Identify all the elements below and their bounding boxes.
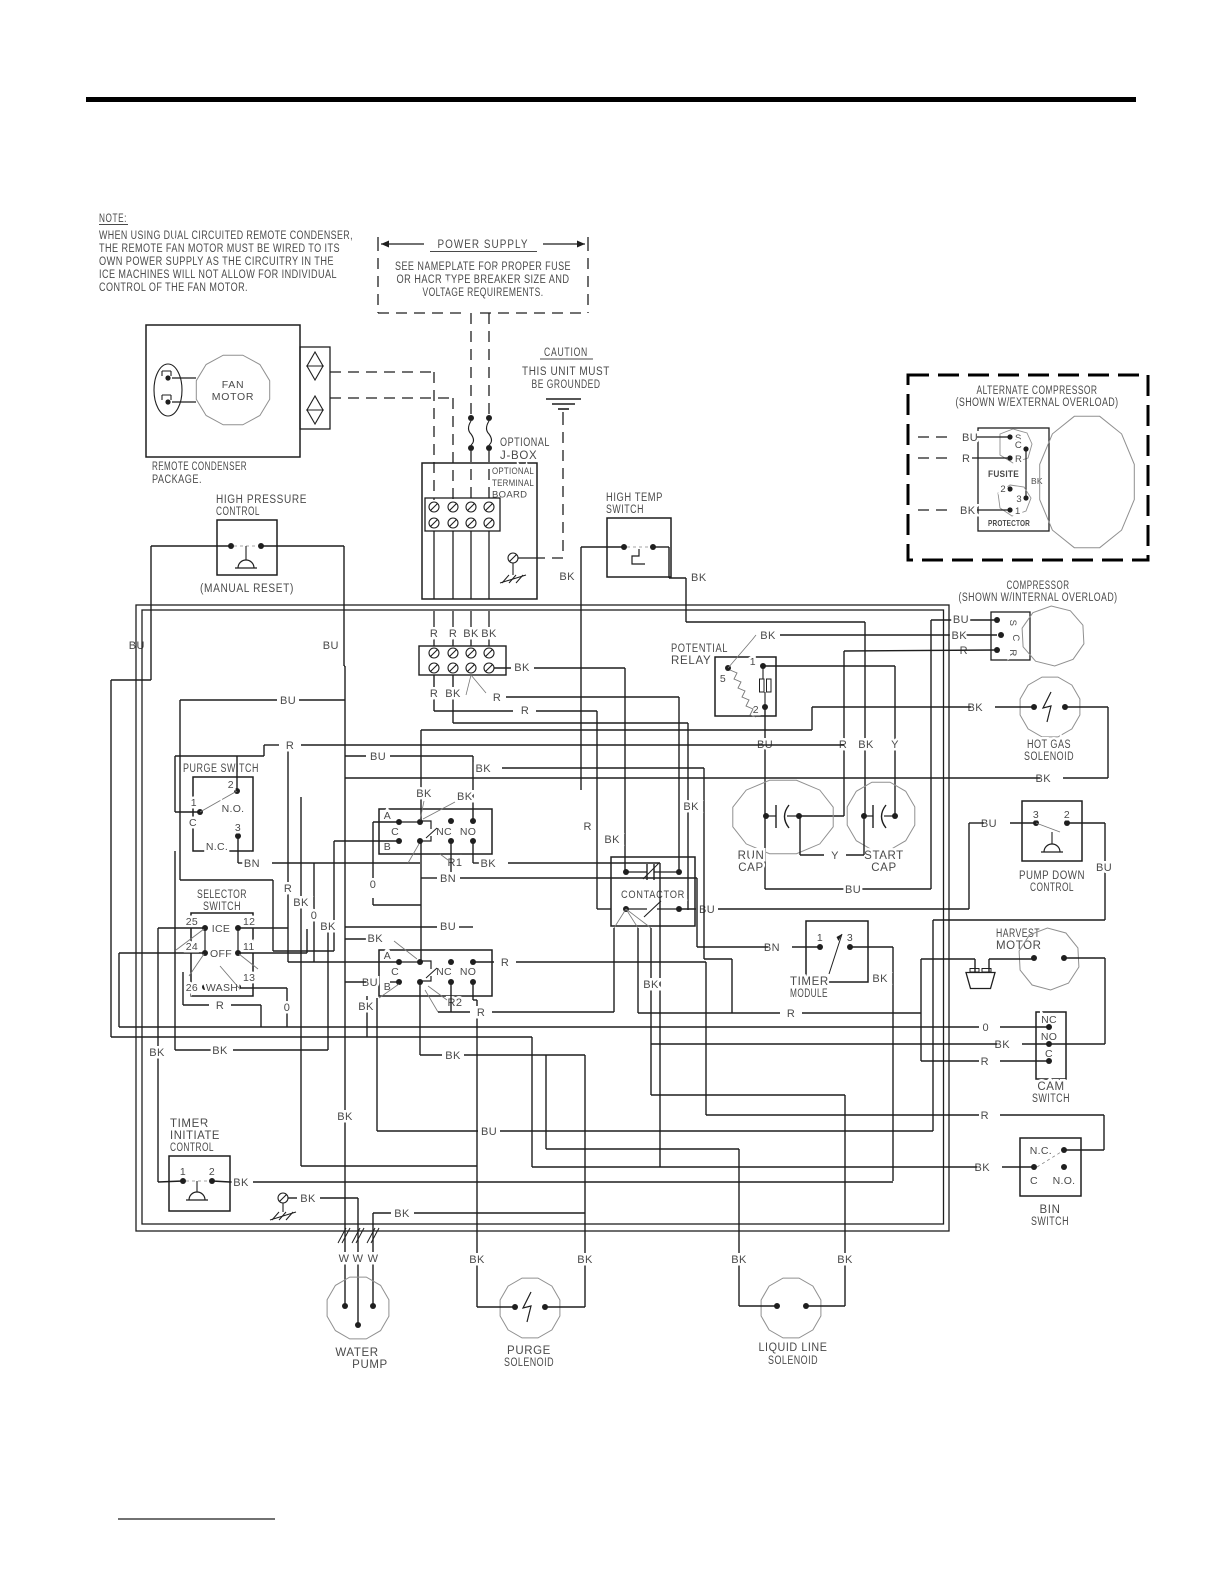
svg-text:BK: BK <box>872 973 888 985</box>
svg-text:R: R <box>477 1007 485 1019</box>
water pump <box>327 1277 389 1371</box>
svg-text:PURGE SWITCH: PURGE SWITCH <box>183 763 259 775</box>
wire - harvest motor left to plug <box>921 959 1034 1061</box>
svg-text:CONTROL: CONTROL <box>1030 882 1074 894</box>
svg-text:N.O.: N.O. <box>222 803 245 815</box>
footer line <box>118 1518 275 1520</box>
svg-text:R: R <box>521 705 529 717</box>
svg-text:SWITCH: SWITCH <box>606 504 644 516</box>
wire - R1 NO bottom BK lead <box>473 841 660 1167</box>
svg-text:BK: BK <box>1031 476 1043 486</box>
wire - R bus horizontal y745 <box>264 740 844 752</box>
wire - 0 bus vertical x314 <box>311 910 318 922</box>
node W labels <box>339 1253 379 1265</box>
svg-text:3: 3 <box>235 822 241 834</box>
wire - hot gas solenoid left BK <box>421 702 1034 822</box>
svg-text:THIS UNIT MUST: THIS UNIT MUST <box>522 366 610 378</box>
svg-text:3: 3 <box>1016 494 1022 505</box>
svg-text:START: START <box>864 850 904 862</box>
svg-text:MOTOR: MOTOR <box>212 391 254 403</box>
wire - high pressure control right BU <box>261 546 345 666</box>
svg-text:BK: BK <box>559 571 575 583</box>
relay R1 <box>379 809 492 869</box>
svg-text:R: R <box>430 688 438 700</box>
svg-text:NC: NC <box>436 966 452 978</box>
timer initiate control label <box>170 1118 220 1154</box>
wire - high pressure control left BU <box>111 546 231 1037</box>
svg-text:BK: BK <box>394 1208 410 1220</box>
wire - dashed power supply drop 2 <box>488 313 490 414</box>
svg-text:3: 3 <box>847 932 853 944</box>
wire - R2 NO bottom BK lead <box>301 982 477 1166</box>
svg-text:BK: BK <box>416 788 432 800</box>
svg-text:HIGH TEMP: HIGH TEMP <box>606 492 663 504</box>
svg-text:BU: BU <box>953 614 969 626</box>
svg-text:BU: BU <box>440 921 456 933</box>
svg-text:S: S <box>1007 620 1018 627</box>
svg-text:C: C <box>391 966 399 978</box>
wire - liquid line solenoid right BK <box>643 928 853 1306</box>
timer initiate control <box>169 1156 230 1211</box>
svg-text:NO: NO <box>460 826 476 838</box>
wire - compressor BU label <box>953 614 969 626</box>
svg-text:W: W <box>339 1253 350 1265</box>
wire - R1 A lead 0 wire to R2 armature <box>370 822 421 962</box>
svg-text:25: 25 <box>186 916 198 928</box>
svg-text:BK: BK <box>604 834 620 846</box>
svg-text:OFF: OFF <box>210 948 232 960</box>
alternate compressor dashed box <box>908 375 1148 560</box>
svg-text:R: R <box>1007 649 1018 656</box>
wire - cam switch C R wire <box>921 1056 1049 1068</box>
wire - potential relay 5 to compressor C BK <box>728 630 997 668</box>
remote condenser package box <box>146 325 300 457</box>
svg-text:R: R <box>960 645 968 657</box>
svg-text:BK: BK <box>233 1177 249 1189</box>
power supply dashed box <box>378 237 588 313</box>
wire - R1 NO top lead BU <box>345 751 473 821</box>
optional j-box switch 1 <box>468 415 474 451</box>
earth ground symbol <box>546 399 581 414</box>
svg-text:BK: BK <box>445 1050 461 1062</box>
svg-text:BK: BK <box>952 630 968 642</box>
svg-text:SWITCH: SWITCH <box>1031 1216 1069 1228</box>
svg-text:R: R <box>584 821 592 833</box>
svg-text:W: W <box>368 1253 379 1265</box>
svg-text:3: 3 <box>1033 809 1039 821</box>
wire - bin switch NC to R wire <box>706 1110 1104 1150</box>
svg-text:CONTACTOR: CONTACTOR <box>621 889 685 901</box>
liquid line solenoid <box>759 1278 828 1367</box>
svg-text:BU: BU <box>981 818 997 830</box>
wire - R bus vertical x288 <box>284 745 292 962</box>
svg-text:BK: BK <box>212 1045 228 1057</box>
wire - purge solenoid left lead BK <box>469 1166 515 1307</box>
wire - R1 C lead <box>334 841 399 951</box>
wire - terminal strip BK to contactor <box>494 662 625 872</box>
wire - timer initiate right BK lead <box>212 1177 893 1189</box>
svg-text:BE GROUNDED: BE GROUNDED <box>532 379 601 391</box>
wire - pump down BU right <box>933 823 1112 1131</box>
svg-text:ALTERNATE COMPRESSOR: ALTERNATE COMPRESSOR <box>977 385 1098 397</box>
svg-text:ICE: ICE <box>212 923 230 935</box>
svg-text:BIN: BIN <box>1040 1204 1061 1216</box>
svg-text:WASH: WASH <box>206 982 238 994</box>
svg-text:1: 1 <box>180 1166 186 1178</box>
selector switch label <box>197 889 247 913</box>
svg-text:C: C <box>391 826 399 838</box>
svg-text:(SHOWN W/INTERNAL OVERLOAD): (SHOWN W/INTERNAL OVERLOAD) <box>959 592 1118 604</box>
compressor <box>991 606 1084 666</box>
svg-text:VOLTAGE REQUIREMENTS.: VOLTAGE REQUIREMENTS. <box>423 287 544 299</box>
wire - contactor coil leads down <box>614 909 921 1020</box>
main enclosure outer box <box>136 605 949 1231</box>
svg-text:R: R <box>501 957 509 969</box>
wire - BU bus bottom <box>377 984 933 1138</box>
svg-text:BK: BK <box>300 1193 316 1205</box>
svg-text:BN: BN <box>244 858 260 870</box>
svg-text:11: 11 <box>243 941 255 953</box>
svg-text:INITIATE: INITIATE <box>170 1130 220 1142</box>
caution text <box>522 347 610 391</box>
wire - R2 A lead <box>288 961 399 963</box>
optional j-box switch 2 <box>486 415 492 451</box>
svg-text:BU: BU <box>845 884 861 896</box>
wire - alt compressor BK dashed <box>918 505 1010 517</box>
svg-text:24: 24 <box>186 941 198 953</box>
wire - purge switch 2 wire <box>236 756 238 791</box>
svg-text:WATER: WATER <box>335 1347 378 1359</box>
protector terminals <box>988 484 1031 528</box>
svg-text:TERMINAL: TERMINAL <box>492 478 534 489</box>
svg-text:FAN: FAN <box>222 379 245 391</box>
potential relay <box>715 656 776 717</box>
start cap <box>847 782 915 874</box>
svg-text:BU: BU <box>699 904 715 916</box>
svg-text:C: C <box>1030 1175 1038 1187</box>
svg-text:(SHOWN W/EXTERNAL OVERLOAD): (SHOWN W/EXTERNAL OVERLOAD) <box>956 397 1119 409</box>
svg-text:2: 2 <box>209 1166 215 1178</box>
svg-text:A: A <box>384 950 391 962</box>
svg-text:W: W <box>353 1253 364 1265</box>
svg-text:2: 2 <box>1000 484 1006 495</box>
svg-text:OPTIONAL: OPTIONAL <box>500 437 550 449</box>
selector switch <box>176 913 258 996</box>
potential relay label <box>671 643 728 667</box>
wire - hot gas solenoid right BK <box>345 707 1108 785</box>
svg-text:WHEN USING DUAL CIRCUITED REMO: WHEN USING DUAL CIRCUITED REMOTE CONDENS… <box>99 230 353 242</box>
wire - purge solenoid right lead BK <box>545 1254 593 1307</box>
svg-text:5: 5 <box>720 673 726 685</box>
svg-text:BU: BU <box>362 977 378 989</box>
wire - terminal strip R leader labels <box>466 675 679 872</box>
svg-text:BK: BK <box>481 628 497 640</box>
wire - cam switch NO BK wire <box>651 1039 1049 1051</box>
wire - selector 11 wire <box>238 929 307 953</box>
terminal strip lower <box>419 646 506 675</box>
wire - potential relay 2 BU to compressor S <box>757 620 997 896</box>
alternate compressor inner box <box>978 428 1049 531</box>
svg-text:BK: BK <box>463 628 479 640</box>
svg-text:NO: NO <box>460 966 476 978</box>
svg-text:BK: BK <box>837 1254 853 1266</box>
wire - R2 NC bottom lead <box>450 982 452 1012</box>
svg-text:BU: BU <box>481 1126 497 1138</box>
svg-text:BK: BK <box>577 1254 593 1266</box>
svg-text:R1: R1 <box>447 857 462 869</box>
fan motor left connector <box>154 364 196 416</box>
svg-text:CONTROL: CONTROL <box>170 1142 214 1154</box>
wire - R2 armature BK lead down <box>420 982 585 1307</box>
svg-text:BK: BK <box>358 1001 374 1013</box>
svg-text:CAUTION: CAUTION <box>544 347 588 359</box>
wire - R1 armature BK labels <box>416 788 472 820</box>
wire - R2 R leader to y1012 <box>425 990 614 1019</box>
svg-text:13: 13 <box>243 972 255 984</box>
svg-text:R: R <box>962 453 970 465</box>
svg-text:PURGE: PURGE <box>507 1345 551 1357</box>
cam switch <box>1032 1012 1070 1105</box>
wire - cam switch NC 0 wire <box>119 953 1049 1034</box>
wire - fusite C to protector 3 BK <box>1026 449 1043 498</box>
svg-text:HOT GAS: HOT GAS <box>1027 739 1071 751</box>
svg-text:REMOTE CONDENSER: REMOTE CONDENSER <box>152 461 247 473</box>
wire - high temp switch right BK to start cap <box>653 547 874 816</box>
wire - terminal board down leads <box>434 531 489 599</box>
svg-text:R: R <box>216 1000 224 1012</box>
svg-text:BU: BU <box>323 640 339 652</box>
svg-text:2: 2 <box>228 779 234 791</box>
wire - dashed j-box to terminal strip 1 <box>470 451 472 500</box>
svg-text:BK: BK <box>975 1162 991 1174</box>
svg-text:C: C <box>1010 634 1021 641</box>
svg-text:A: A <box>384 810 391 822</box>
svg-text:N.O.: N.O. <box>1053 1175 1076 1187</box>
svg-text:ICE MACHINES WILL NOT ALLOW FO: ICE MACHINES WILL NOT ALLOW FOR INDIVIDU… <box>99 269 337 281</box>
svg-text:BK: BK <box>457 791 473 803</box>
svg-text:HIGH PRESSURE: HIGH PRESSURE <box>216 494 307 506</box>
wire - alt compressor BU dashed <box>918 432 1010 444</box>
svg-text:BK: BK <box>760 630 776 642</box>
svg-text:N.C.: N.C. <box>1030 1145 1052 1157</box>
strain relief hatch marks <box>338 1228 379 1243</box>
svg-text:TIMER: TIMER <box>170 1118 209 1130</box>
wire - BK right of contactor <box>683 768 732 1013</box>
svg-text:12: 12 <box>243 916 255 928</box>
svg-text:COMPRESSOR: COMPRESSOR <box>1007 580 1070 592</box>
main enclosure inner box <box>142 610 944 1224</box>
wire - purge switch 3 BN wire <box>238 836 420 870</box>
wire - BK bus y1213 <box>373 1208 585 1306</box>
alternate compressor label <box>956 385 1119 409</box>
optional j-box label <box>500 437 550 462</box>
svg-text:BK: BK <box>368 933 384 945</box>
remote condenser package label <box>152 461 247 486</box>
svg-text:SWITCH: SWITCH <box>1032 1093 1070 1105</box>
wire - selector 25 ICE wire BK <box>149 928 205 1182</box>
svg-text:HARVEST: HARVEST <box>996 928 1040 940</box>
wire - dashed ground wire to terminal board <box>540 414 563 558</box>
wire - pump down BU left to contactor <box>718 818 1036 909</box>
svg-text:BU: BU <box>280 695 296 707</box>
svg-text:RELAY: RELAY <box>671 655 711 667</box>
svg-text:POTENTIAL: POTENTIAL <box>671 643 728 655</box>
svg-text:PUMP: PUMP <box>352 1359 388 1371</box>
svg-text:OPTIONAL: OPTIONAL <box>492 466 534 477</box>
wire - main center vertical to water pump <box>337 666 353 1306</box>
svg-text:BK: BK <box>320 921 336 933</box>
svg-text:SELECTOR: SELECTOR <box>197 889 247 901</box>
wire - harvest motor right to cam switch NO <box>1049 958 1105 1044</box>
hot gas solenoid <box>1020 677 1080 763</box>
purge switch <box>189 777 253 853</box>
wire - BK bus vertical x327 <box>320 921 336 933</box>
svg-text:CAP: CAP <box>871 862 896 874</box>
svg-text:BK: BK <box>1036 773 1052 785</box>
wire - dashed power supply drop 1 <box>470 313 472 414</box>
wire - purge switch C wire <box>175 745 264 812</box>
high pressure control label <box>216 494 307 518</box>
svg-text:SOLENOID: SOLENOID <box>768 1355 818 1367</box>
wire - BN bus R1 armature bottom <box>408 844 697 885</box>
wire - R2 C lead BU <box>345 977 399 989</box>
wire - timer module 3 BK right <box>850 947 893 1181</box>
svg-text:BK: BK <box>149 1047 165 1059</box>
wire - BK bus vertical x301 <box>293 797 309 1166</box>
svg-text:BOARD: BOARD <box>492 490 527 501</box>
svg-text:R: R <box>493 692 501 704</box>
wire - R2 armature BK label wire <box>345 933 417 959</box>
chassis ground symbol <box>500 563 526 583</box>
wire - 0 bus vertical x314 lead <box>313 863 315 962</box>
wire - selector 12 wire <box>238 927 288 929</box>
wire - BU wire to R2 <box>345 921 473 933</box>
wire - terminal strip BK lead down <box>445 675 688 910</box>
svg-text:BK: BK <box>337 1111 353 1123</box>
wire - bin switch C BK wire <box>111 996 1034 1174</box>
wire - R bus to contactor upper <box>447 710 449 712</box>
svg-text:C: C <box>1015 440 1022 451</box>
svg-text:MOTOR: MOTOR <box>996 940 1042 952</box>
svg-text:Y: Y <box>831 850 839 862</box>
svg-text:Y: Y <box>891 739 899 751</box>
svg-text:CONTROL OF THE FAN MOTOR.: CONTROL OF THE FAN MOTOR. <box>99 282 248 294</box>
svg-text:BK: BK <box>469 1254 485 1266</box>
svg-text:BU: BU <box>962 432 978 444</box>
wire - BK bus left bottom <box>175 851 328 1057</box>
relay R2 <box>379 950 492 1009</box>
svg-text:BK: BK <box>731 1254 747 1266</box>
svg-text:R: R <box>284 883 292 895</box>
svg-text:BK: BK <box>445 688 461 700</box>
high pressure control <box>217 520 277 575</box>
harvest motor plug connector <box>966 969 995 989</box>
top border rule <box>86 97 1136 102</box>
svg-text:BK: BK <box>691 572 707 584</box>
harvest motor label <box>996 928 1042 952</box>
svg-text:NC: NC <box>436 826 452 838</box>
svg-text:R2: R2 <box>447 997 462 1009</box>
wire - dashed fan motor to terminal board R2 <box>330 398 453 500</box>
wire - timer initiate left lead <box>158 1181 183 1182</box>
wire - alt compressor R dashed <box>918 453 1010 465</box>
timer module <box>790 921 868 1000</box>
svg-text:0: 0 <box>982 1022 989 1034</box>
svg-text:BN: BN <box>764 942 780 954</box>
svg-text:CONTROL: CONTROL <box>216 506 260 518</box>
svg-text:BK: BK <box>514 662 530 674</box>
wire - run cap to start cap Y <box>800 816 864 862</box>
harvest motor <box>1019 928 1079 990</box>
wire - BU bus horizontal y700 <box>180 695 345 951</box>
svg-text:OWN POWER SUPPLY AS THE CIRCUI: OWN POWER SUPPLY AS THE CIRCUITRY IN THE <box>99 256 334 268</box>
wire - potential relay 1 to start cap <box>763 666 899 816</box>
contactor <box>611 857 695 926</box>
wire - dashed j-box to terminal strip 2 <box>488 451 490 500</box>
note text block <box>99 213 353 294</box>
wire - terminal strip interconnect leads R R BK BK <box>430 611 497 646</box>
svg-text:SWITCH: SWITCH <box>203 901 241 913</box>
svg-text:1: 1 <box>817 932 823 944</box>
svg-text:BU: BU <box>1096 862 1112 874</box>
fan motor <box>196 355 269 425</box>
wire - terminal strip R lead down <box>430 675 611 909</box>
terminal strip upper <box>425 498 500 531</box>
chassis ground symbol bottom <box>270 1203 296 1220</box>
svg-text:PROTECTOR: PROTECTOR <box>988 518 1030 528</box>
svg-text:2: 2 <box>1064 809 1070 821</box>
svg-text:OR HACR TYPE BREAKER SIZE AND: OR HACR TYPE BREAKER SIZE AND <box>397 274 570 286</box>
wire - high temp switch left BK <box>559 547 624 790</box>
wire - liquid line solenoid left BK <box>546 1055 777 1306</box>
svg-text:0: 0 <box>370 879 377 891</box>
svg-text:NOTE:: NOTE: <box>99 213 127 225</box>
svg-text:LIQUID LINE: LIQUID LINE <box>759 1342 828 1354</box>
wire - timer module BN left <box>697 878 820 954</box>
run cap <box>733 780 833 874</box>
svg-text:N.C.: N.C. <box>206 841 228 853</box>
svg-text:1: 1 <box>1015 506 1021 517</box>
high temp switch label <box>606 492 663 516</box>
svg-text:BK: BK <box>481 858 497 870</box>
svg-text:BU: BU <box>370 751 386 763</box>
svg-text:BK: BK <box>995 1039 1011 1051</box>
svg-text:0: 0 <box>284 1002 291 1014</box>
fan motor plug connector <box>300 347 330 429</box>
compressor label <box>959 580 1118 604</box>
svg-text:(MANUAL RESET): (MANUAL RESET) <box>200 583 294 595</box>
svg-text:RUN: RUN <box>738 850 765 862</box>
svg-text:BK: BK <box>293 897 309 909</box>
svg-text:CAM: CAM <box>1037 1081 1064 1093</box>
svg-text:B: B <box>384 841 391 853</box>
wire - dashed fan motor to terminal board R <box>330 372 434 500</box>
svg-text:R: R <box>1015 454 1022 465</box>
high temp switch <box>607 518 671 577</box>
svg-text:CAP: CAP <box>738 862 763 874</box>
bin switch <box>1020 1138 1081 1228</box>
svg-text:R: R <box>449 628 457 640</box>
svg-text:SOLENOID: SOLENOID <box>1024 751 1074 763</box>
wire - contactor BU right <box>679 904 715 916</box>
svg-text:J-BOX: J-BOX <box>500 450 537 462</box>
ground screw terminal board <box>508 553 540 563</box>
svg-text:SEE NAMEPLATE FOR PROPER FUSE: SEE NAMEPLATE FOR PROPER FUSE <box>395 261 571 273</box>
optional terminal board box <box>422 463 537 599</box>
svg-text:C: C <box>189 817 197 829</box>
svg-text:BK: BK <box>858 739 874 751</box>
svg-text:PUMP DOWN: PUMP DOWN <box>1019 870 1085 882</box>
